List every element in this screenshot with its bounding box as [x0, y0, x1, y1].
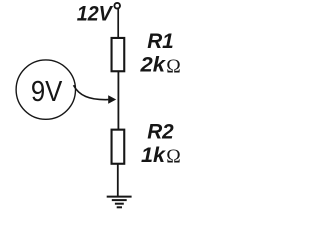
- svg-text:9V: 9V: [31, 76, 63, 108]
- wire middle: R1 to R2: [117, 71, 119, 130]
- svg-text:R1: R1: [147, 29, 174, 53]
- resistor R1: [112, 38, 125, 71]
- svg-text:1k: 1k: [141, 143, 166, 167]
- svg-text:Ω: Ω: [166, 146, 181, 167]
- node A voltage balloon 9V: [16, 60, 75, 119]
- leader wire from balloon to node: [74, 85, 109, 99]
- wire bottom: R2 to ground: [117, 164, 119, 197]
- resistor R2: [112, 130, 125, 164]
- svg-text:Ω: Ω: [166, 56, 181, 77]
- wire top: terminal to R1: [117, 9, 119, 39]
- ground: [107, 197, 132, 208]
- leader arrowhead: [108, 95, 116, 104]
- svg-text:R2: R2: [147, 119, 174, 143]
- node 12V terminal: [114, 3, 120, 9]
- svg-text:2k: 2k: [139, 52, 166, 76]
- svg-text:12V: 12V: [77, 2, 114, 26]
